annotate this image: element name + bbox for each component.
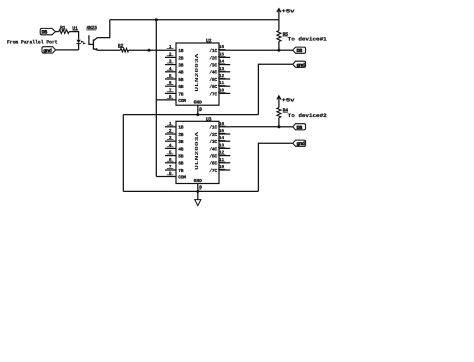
U3 pin 2 input 2B (165, 133, 176, 135)
svg-text:6: 6 (169, 158, 172, 163)
wire emitter to R2 (98, 49, 121, 51)
U3 pin 14 output /3C (219, 140, 230, 142)
svg-text:R1: R1 (60, 25, 66, 31)
U3 pin 3 input 3B (165, 140, 176, 142)
wire gnd tag to LED cathode (56, 49, 79, 51)
node junction dot U2 gnd (196, 113, 199, 116)
wire R4 to output node 2 (278, 118, 280, 127)
U2 pin 2 input 2B (165, 56, 176, 58)
resistor R5 (277, 31, 281, 42)
wire R5 to output node 1 (278, 42, 280, 51)
wire top rail collector to +5v column (110, 19, 279, 21)
U3 pin 1 input 1B (165, 126, 176, 128)
svg-text:8: 8 (199, 106, 202, 112)
svg-text:4B: 4B (178, 70, 184, 76)
svg-text:+5v: +5v (282, 98, 296, 104)
svg-text:U3: U3 (206, 116, 212, 122)
resistor R4 (277, 108, 281, 118)
svg-text:4B: 4B (178, 146, 184, 152)
svg-text:2B: 2B (178, 55, 184, 61)
svg-text:gnd: gnd (297, 141, 305, 147)
U2 pin 4 input 4B (165, 71, 176, 73)
U2 pin 3 input 3B (165, 64, 176, 66)
U2 pin 15 output /2C (219, 56, 230, 58)
svg-text:/4C: /4C (209, 70, 217, 76)
wire COM U3 connection (156, 175, 176, 177)
svg-text:2: 2 (169, 52, 172, 57)
svg-text:4N25: 4N25 (86, 25, 97, 31)
svg-text:6B: 6B (178, 161, 184, 167)
svg-text:7: 7 (169, 88, 172, 93)
svg-text:/6C: /6C (209, 161, 217, 167)
ground earth arrow symbol (197, 191, 199, 199)
op-amp U3 ULN2003 IC box (176, 121, 219, 183)
svg-text:DB: DB (297, 48, 303, 54)
U2 pin 11 output /6C (219, 85, 230, 87)
svg-text:/2C: /2C (209, 132, 217, 138)
svg-text:/3C: /3C (209, 139, 217, 145)
svg-text:gnd: gnd (43, 48, 51, 54)
transistor emitter lead with arrow (93, 48, 97, 50)
transistor collector lead (93, 20, 109, 41)
resistor R2 (120, 48, 128, 52)
svg-text:/1C: /1C (209, 125, 217, 131)
power +5v symbol section 2 (277, 96, 281, 100)
U3 pin 11 output /6C (219, 162, 230, 164)
svg-text:5B: 5B (178, 77, 184, 83)
svg-text:+5v: +5v (282, 8, 296, 14)
svg-text:5: 5 (169, 151, 172, 156)
node output tag device 2 (293, 124, 306, 130)
svg-text:7B: 7B (178, 91, 184, 97)
wire output node 1 to tag (279, 49, 293, 51)
svg-text:gnd: gnd (297, 62, 305, 68)
wire output node 2 to tag (279, 126, 293, 128)
svg-text:4: 4 (169, 143, 172, 148)
svg-text:3: 3 (169, 136, 172, 141)
wire COM U2 connection (156, 99, 176, 101)
U3 pin 15 output /2C (219, 133, 230, 135)
op-amp U2 ULN2003 IC box (176, 43, 219, 105)
U2 pin 14 output /3C (219, 64, 230, 66)
node junction dot on pin1 wire (148, 49, 151, 52)
wire lower gnd bus (123, 190, 258, 192)
svg-text:GND: GND (194, 100, 203, 106)
wire R1 to opto LED anode (69, 32, 78, 40)
wire gnd tag 1 to gnd bus (258, 64, 292, 114)
svg-text:6B: 6B (178, 84, 184, 90)
svg-text:GND: GND (194, 178, 203, 184)
svg-text:R2: R2 (118, 43, 124, 49)
svg-text:1B: 1B (178, 48, 184, 54)
svg-text:COM: COM (178, 174, 186, 180)
node input gnd tag (42, 47, 56, 53)
svg-text:/7C: /7C (209, 168, 217, 174)
wire U2 pin16 to output node 1 (230, 49, 279, 51)
svg-text:5: 5 (169, 74, 172, 79)
svg-text:3: 3 (169, 60, 172, 65)
svg-text:To device#1: To device#1 (288, 36, 327, 42)
svg-text:DB: DB (297, 125, 303, 131)
node junction dot output 2 (277, 125, 280, 128)
node junction dot output 1 (277, 49, 280, 52)
node output tag device 1 (293, 47, 306, 53)
svg-text:ULN2003A: ULN2003A (194, 132, 200, 170)
wire input tag to R1 (55, 31, 59, 33)
svg-text:3B: 3B (178, 63, 184, 69)
svg-text:/5C: /5C (209, 77, 217, 83)
U2 pin 5 input 5B (165, 78, 176, 80)
svg-text:/7C: /7C (209, 91, 217, 97)
svg-text:From Parallel Port: From Parallel Port (7, 40, 58, 46)
U2 pin 12 output /5C (219, 78, 230, 80)
svg-text:1B: 1B (178, 125, 184, 131)
wire +5v to R5 (278, 20, 280, 31)
node output gnd tag 1 (293, 61, 306, 67)
svg-text:/4C: /4C (209, 146, 217, 152)
svg-text:7: 7 (169, 165, 172, 170)
U3 pin 5 input 5B (165, 155, 176, 157)
svg-text:2B: 2B (178, 132, 184, 138)
diode LED of U1 (76, 40, 80, 43)
svg-text:2: 2 (169, 129, 172, 134)
svg-text:DB: DB (42, 30, 48, 36)
svg-text:5B: 5B (178, 154, 184, 160)
U2 pin 10 output /7C (219, 92, 230, 94)
transistor phototransistor of U1 - base bar and base lead (92, 40, 94, 50)
svg-text:U2: U2 (206, 38, 212, 44)
node junction dot U3 gnd (196, 190, 199, 193)
U2 pin 16 output /1C (219, 49, 230, 51)
resistor R1 (59, 30, 69, 34)
U3 pin 7 input 7B (165, 169, 176, 171)
U2 pin 7 input 7B (165, 92, 176, 94)
svg-text:9: 9 (169, 171, 172, 176)
U3 pin 4 input 4B (165, 147, 176, 149)
svg-text:4: 4 (169, 67, 172, 72)
U3 pin 12 output /5C (219, 155, 230, 157)
svg-text:/1C: /1C (209, 48, 217, 54)
wire upper gnd bus (123, 114, 258, 116)
U3 pin 10 output /7C (219, 169, 230, 171)
U3 pin 6 input 6B (165, 162, 176, 164)
node input data-bit tag (from parallel port) (40, 28, 55, 34)
svg-text:8: 8 (199, 185, 202, 191)
wire R2 to U2 pin 1 (129, 49, 176, 51)
svg-text:3B: 3B (178, 139, 184, 145)
svg-text:6: 6 (169, 81, 172, 86)
U3 pin 13 output /4C (219, 147, 230, 149)
svg-text:To device#2: To device#2 (288, 113, 327, 119)
svg-text:1: 1 (169, 122, 172, 127)
svg-text:/2C: /2C (209, 55, 217, 61)
U3 pin 16 output /1C (219, 126, 230, 128)
wire left gnd drop (122, 115, 124, 192)
svg-text:ULN2003A: ULN2003A (194, 53, 200, 91)
svg-text:9: 9 (169, 95, 172, 100)
U2 pin 6 input 6B (165, 85, 176, 87)
light arrows of U1 (81, 41, 84, 43)
wire gnd tag 2 to lower gnd bus (258, 143, 292, 191)
U2 pin 13 output /4C (219, 71, 230, 73)
svg-text:1: 1 (169, 45, 172, 50)
svg-text:7B: 7B (178, 168, 184, 174)
svg-text:COM: COM (178, 98, 186, 104)
node output gnd tag 2 (293, 140, 306, 146)
svg-text:/3C: /3C (209, 63, 217, 69)
wire main vertical +5v rail to COM pins (155, 20, 157, 177)
svg-text:/6C: /6C (209, 84, 217, 90)
wire U3 pin16 to output node 2 (230, 126, 279, 128)
power +5v symbol section 1 (277, 9, 281, 13)
svg-text:/5C: /5C (209, 154, 217, 160)
node junction dot top rail / main vertical (155, 18, 158, 21)
